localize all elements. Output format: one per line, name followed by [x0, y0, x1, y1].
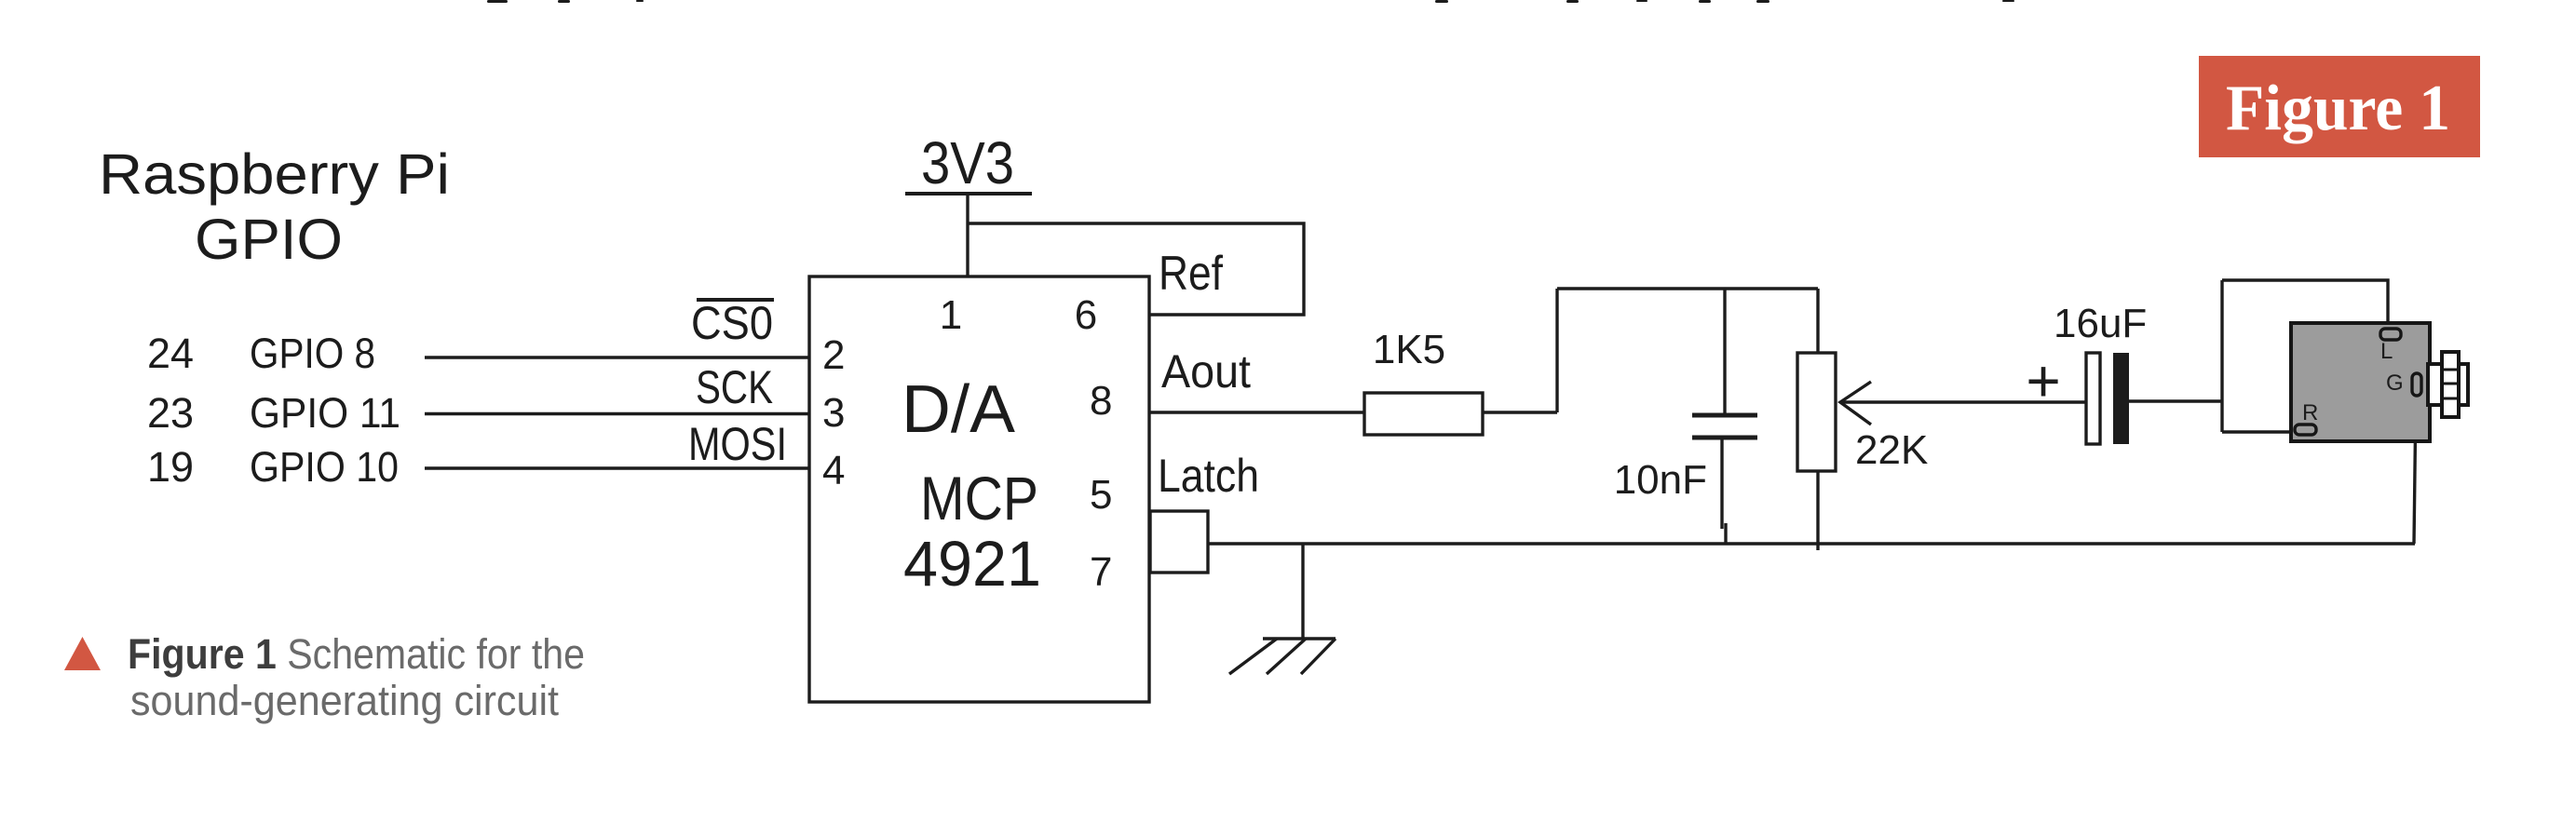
jack plug tip stack — [2442, 352, 2459, 417]
svg-text:3: 3 — [822, 390, 845, 436]
resistor R1 1K5 body — [1364, 393, 1483, 435]
svg-text:L: L — [2380, 339, 2393, 364]
cropped text descenders at top edge — [487, 0, 2014, 3]
svg-text:Aout: Aout — [1161, 345, 1251, 398]
wire resistor to riser — [1483, 411, 1557, 413]
svg-text:Figure 1 Schematic for the: Figure 1 Schematic for the — [128, 630, 585, 678]
svg-text:4921: 4921 — [903, 528, 1041, 600]
svg-text:23: 23 — [147, 389, 194, 437]
wire GPIO8 to pin 2 — [425, 356, 809, 358]
capacitor C1 10nF bottom plate — [1692, 436, 1757, 440]
svg-text:MCP: MCP — [920, 464, 1038, 533]
wire wiper to 16uF cap — [1840, 400, 2086, 403]
svg-text:Latch: Latch — [1158, 450, 1259, 502]
wire 3V3 to pin 1 — [966, 194, 969, 276]
wire capacitor top lead — [1723, 289, 1726, 414]
svg-text:6: 6 — [1075, 292, 1097, 338]
svg-text:10nF: 10nF — [1614, 457, 1707, 503]
svg-text:GPIO: GPIO — [195, 208, 343, 271]
jack pin R — [2295, 425, 2316, 435]
svg-text:1: 1 — [940, 292, 962, 338]
potentiometer VR1 22K body — [1797, 353, 1836, 471]
svg-text:SCK: SCK — [696, 361, 773, 413]
wire 3V3 branch to Ref pin 6 — [968, 223, 1304, 315]
wire top rail — [1557, 287, 1818, 290]
wire 16uF to jack node — [2129, 399, 2222, 402]
svg-text:24: 24 — [147, 330, 194, 377]
svg-text:1K5: 1K5 — [1373, 327, 1445, 372]
wire to R pin — [2222, 430, 2291, 433]
caption triangle — [64, 637, 101, 670]
wire GPIO11 to pin 3 — [425, 412, 809, 415]
svg-text:4: 4 — [822, 448, 845, 493]
wire G pin down to rail — [2414, 395, 2416, 544]
svg-text:GPIO 10: GPIO 10 — [250, 443, 399, 491]
audio jack J1 body — [2291, 323, 2430, 441]
svg-text:MOSI: MOSI — [688, 418, 787, 470]
svg-text:19: 19 — [147, 443, 194, 491]
svg-text:G: G — [2386, 371, 2404, 396]
capacitor C1 10nF top plate — [1692, 413, 1757, 418]
wire latch rail — [1208, 542, 2415, 545]
svg-text:Ref: Ref — [1159, 247, 1223, 301]
latch pin box — [1150, 511, 1208, 573]
svg-text:5: 5 — [1090, 472, 1112, 518]
figure badge — [2199, 56, 2480, 157]
svg-text:R: R — [2302, 400, 2318, 425]
svg-text:CS0: CS0 — [691, 297, 773, 349]
svg-text:3V3: 3V3 — [921, 129, 1014, 196]
power rail 3V3 bar — [905, 192, 1032, 196]
svg-text:Figure 1: Figure 1 — [2226, 73, 2450, 144]
svg-text:16uF: 16uF — [2054, 301, 2147, 346]
wire to L pin — [2222, 280, 2388, 332]
svg-text:2: 2 — [822, 332, 845, 378]
wire Aout pin 8 to resistor — [1149, 411, 1364, 413]
IC U1 MCP4921 body — [809, 276, 1149, 702]
jack plug collar — [2428, 364, 2468, 405]
wire ground stub — [1301, 544, 1304, 639]
svg-text:7: 7 — [1090, 549, 1112, 595]
jack pin L — [2380, 329, 2401, 340]
wire node riser at jack — [2220, 280, 2223, 432]
svg-text:sound-generating circuit: sound-generating circuit — [130, 677, 559, 724]
svg-text:Raspberry Pi: Raspberry Pi — [99, 142, 450, 206]
wire capacitor bottom lead — [1720, 438, 1723, 529]
svg-text:GPIO 8: GPIO 8 — [250, 330, 375, 377]
svg-text:22K: 22K — [1855, 427, 1928, 473]
pot wiper arrowhead — [1840, 382, 1871, 425]
jack pin G — [2412, 373, 2421, 396]
capacitor C2 16uF positive plate — [2086, 353, 2100, 444]
svg-text:D/A: D/A — [902, 372, 1015, 447]
wire GPIO10 to pin 4 — [425, 466, 809, 469]
wire riser up — [1555, 289, 1558, 412]
ground symbol — [1229, 639, 1335, 674]
capacitor C2 16uF negative plate — [2113, 353, 2129, 444]
overline of CS0 — [697, 298, 774, 302]
svg-text:GPIO 11: GPIO 11 — [250, 389, 400, 437]
svg-text:+: + — [2026, 347, 2060, 414]
wire capacitor bottom lead jog — [1724, 523, 1727, 544]
wire pot top lead — [1816, 289, 1819, 353]
wire pot bottom lead — [1816, 471, 1819, 550]
svg-text:8: 8 — [1090, 378, 1112, 424]
